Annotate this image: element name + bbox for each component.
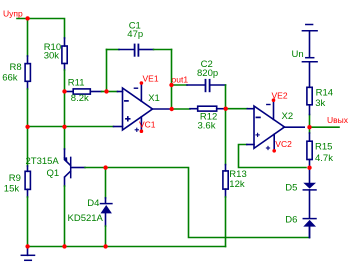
transistor Q1 (63, 149, 85, 186)
wire/lead R15 top from output node (309, 127, 311, 133)
wire output node up to R14 (309, 115, 311, 128)
svg-text:8.2k: 8.2k (71, 93, 89, 104)
svg-text:Uвых: Uвых (327, 115, 349, 125)
node junction dots on rail (25, 244, 29, 248)
ground symbol (21, 247, 34, 261)
wire X2 output (284, 126, 305, 128)
node junction dot base/D4 (103, 165, 107, 169)
node VE2 pin dot (272, 98, 276, 102)
node out1 junction dot (169, 83, 173, 87)
svg-text:Q1: Q1 (47, 168, 60, 179)
svg-text:R11: R11 (68, 77, 85, 88)
op-amp X1 (123, 83, 153, 131)
wire Q1 collector down to rail (64, 186, 66, 247)
resistor R13 (223, 165, 228, 197)
resistor R8 (25, 56, 30, 89)
capacitor C1 (107, 45, 172, 92)
wire column down to R13 (225, 109, 227, 165)
wire R13 bottom to ground rail corner (225, 197, 227, 247)
svg-text:VC2: VC2 (275, 139, 292, 149)
node junction dot R12 right (224, 107, 228, 111)
node junction dot left column / +input wire (25, 125, 29, 129)
wire left column lower to ground rail (27, 197, 29, 247)
node VC1 pin dot (140, 129, 144, 133)
svg-text:out1: out1 (172, 74, 189, 84)
ground rail (28, 246, 226, 248)
svg-text:Uупр: Uупр (3, 8, 23, 18)
node junction dot top-left (25, 16, 29, 20)
resistor R15 (307, 133, 312, 168)
resistor R11 (66, 89, 102, 94)
svg-text:D5: D5 (285, 182, 297, 193)
wire minus input lead (107, 91, 118, 93)
wire C1 right down through out1 to X1 output (171, 50, 173, 110)
resistor R10 (62, 38, 67, 70)
svg-text:820p: 820p (197, 68, 218, 79)
diode D5 (303, 168, 316, 218)
svg-text:D4: D4 (87, 198, 99, 209)
svg-text:D6: D6 (285, 214, 297, 225)
svg-text:Un: Un (292, 49, 304, 60)
node VC2 pin dot (272, 149, 276, 153)
resistor R9 (25, 166, 30, 197)
svg-text:R15: R15 (315, 141, 332, 152)
diode D4 (101, 168, 112, 247)
wire base net right, down and to D6 (106, 168, 310, 238)
svg-text:12k: 12k (229, 179, 245, 190)
svg-text:X1: X1 (148, 93, 160, 104)
node junction dot minus input (104, 89, 108, 93)
wire left column between R8 and R9 (27, 89, 29, 166)
svg-text:X2: X2 (282, 111, 294, 122)
svg-text:30k: 30k (44, 50, 60, 61)
svg-text:3.6k: 3.6k (198, 121, 216, 132)
capacitor C2 (172, 80, 226, 109)
wire Q1 base to junction (85, 167, 106, 169)
node junction dot R15 bottom (307, 166, 311, 170)
wire to X2 minus input (226, 108, 248, 110)
wire X1 plus input row (28, 126, 114, 128)
wire X1 output (152, 108, 171, 110)
svg-text:4.7k: 4.7k (315, 153, 333, 164)
wire X2 plus feedback path (239, 145, 307, 168)
node junction dot +input wire / column (62, 125, 66, 129)
wire left column upper (27, 19, 29, 57)
wire X1 out to R12 (172, 108, 191, 110)
svg-text:KD521A: KD521A (68, 213, 104, 224)
svg-text:VC1: VC1 (139, 119, 156, 129)
resistor R12 (190, 106, 224, 111)
op-amp X2 (254, 100, 285, 151)
battery Un (302, 25, 317, 62)
svg-text:47p: 47p (127, 29, 143, 40)
resistor R14 (307, 63, 312, 115)
svg-text:2T315A: 2T315A (26, 156, 60, 167)
node junction dot X2 out (307, 125, 311, 129)
diode D6 (303, 219, 316, 238)
svg-text:3k: 3k (315, 98, 325, 109)
node junction dot R11 left (62, 89, 66, 93)
svg-text:66k: 66k (2, 73, 18, 84)
svg-text:15k: 15k (4, 183, 20, 194)
wire column from R10 down to Q1 emitter (64, 70, 66, 149)
wire top horizontal from Uupr to R10 column (17, 19, 65, 39)
node VE1 pin dot (140, 81, 144, 85)
wire R11 right to junction (102, 91, 107, 93)
svg-text:VE1: VE1 (143, 73, 159, 83)
svg-text:R8: R8 (10, 62, 22, 73)
wire output to right edge (310, 126, 340, 128)
node junction dot X1 out (170, 107, 174, 111)
